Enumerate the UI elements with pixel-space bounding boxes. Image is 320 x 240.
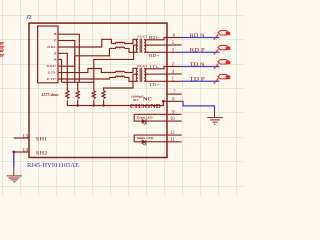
termination bus rail bbox=[62, 81, 94, 83]
resistor R4 75 ohm bbox=[102, 91, 105, 99]
wire CT2 to pin 4 bbox=[144, 73, 181, 75]
inner pin names bbox=[46, 32, 57, 81]
port arrow RD P bbox=[214, 45, 230, 54]
svg-text:NC: NC bbox=[143, 97, 152, 103]
pin 14 SH2 stub bbox=[14, 151, 29, 153]
yellow LED D2 wiring loop bbox=[134, 135, 181, 142]
CT2 tap wire to resistor R4 bbox=[104, 74, 138, 90]
svg-text:RD-: RD- bbox=[149, 35, 160, 40]
earth ground symbol left bbox=[7, 167, 22, 182]
net wire TD P bbox=[182, 80, 220, 82]
junction dot shield bbox=[12, 151, 15, 154]
clipped net-label fragments at left sheet edge bbox=[0, 42, 4, 56]
inner RJ45 pin block box bbox=[38, 26, 58, 83]
transformer T2 secondary winding bbox=[144, 68, 146, 81]
svg-text:SH2: SH2 bbox=[36, 151, 48, 157]
svg-text:12: 12 bbox=[170, 131, 175, 136]
wire choke L1 to transformer T1 primary bbox=[125, 39, 138, 52]
connector J2 outer body box bbox=[29, 23, 167, 157]
common-mode choke L1 winding top bbox=[111, 42, 124, 43]
svg-text:11: 11 bbox=[170, 138, 175, 143]
transformer T2 primary winding bbox=[136, 68, 138, 81]
svg-text:14: 14 bbox=[22, 147, 28, 153]
wire TD- to pin 2 bbox=[144, 67, 181, 69]
wire J2 TX- to choke T2 bbox=[58, 69, 111, 73]
resistor R3 75 ohm bbox=[92, 91, 95, 99]
svg-text:TD-: TD- bbox=[149, 64, 160, 69]
svg-text:2KV: 2KV bbox=[133, 98, 139, 102]
resistor R2 bottom lead bbox=[77, 100, 79, 106]
chassis ground symbol right bbox=[207, 112, 223, 124]
common-mode choke L2 winding bottom bbox=[109, 76, 124, 77]
wire J4 to bus bbox=[58, 59, 62, 82]
wire choke L2 to transformer T2 primary bbox=[125, 68, 138, 81]
wire J1 TX+ to choke T2 bbox=[58, 77, 109, 79]
net wire RD P bbox=[182, 51, 220, 53]
wire RD+ to pin 3 bbox=[144, 51, 181, 53]
svg-text:1CT:1CT: 1CT:1CT bbox=[137, 34, 148, 38]
right-side pin numbers bbox=[170, 34, 176, 143]
pin 8 stub bbox=[167, 100, 182, 102]
net wire CHSGND to chassis ground bbox=[182, 101, 215, 112]
wire TD+ to pin 1 bbox=[144, 80, 181, 82]
svg-text:13: 13 bbox=[22, 133, 28, 139]
bottom termination rail to CHSGND pin bbox=[67, 100, 167, 106]
port arrow TD N bbox=[214, 60, 230, 69]
svg-text:RJ45-HY911105AE: RJ45-HY911105AE bbox=[27, 163, 79, 169]
wire CT1 to pin 5 bbox=[144, 44, 181, 46]
svg-text:J2 TX-: J2 TX- bbox=[47, 71, 56, 75]
port arrow TD P bbox=[214, 74, 230, 83]
svg-text:TD+: TD+ bbox=[149, 82, 160, 87]
wire J8 to bus bbox=[58, 34, 79, 82]
svg-text:10: 10 bbox=[170, 117, 175, 122]
svg-text:J2: J2 bbox=[25, 15, 31, 20]
transformer T1 core bbox=[139, 39, 141, 53]
net wire TD N bbox=[182, 66, 220, 68]
wire J7 to bus bbox=[58, 41, 75, 83]
svg-text:CHSGND: CHSGND bbox=[130, 104, 162, 110]
common-mode choke L1 winding bottom bbox=[109, 47, 124, 48]
junction dots on rails bbox=[66, 81, 68, 83]
svg-text:J4: J4 bbox=[53, 58, 57, 62]
transformer T1 primary winding bbox=[136, 39, 138, 52]
svg-text:Green LED: Green LED bbox=[137, 115, 153, 119]
common-mode choke L2 winding top bbox=[111, 71, 124, 72]
wire RD- to pin 6 bbox=[144, 38, 181, 40]
pin 13 SH1 stub bbox=[14, 137, 29, 139]
svg-text:1CT:1CT: 1CT:1CT bbox=[137, 64, 148, 68]
green LED D1 symbol bbox=[142, 119, 146, 123]
svg-text:TD P: TD P bbox=[190, 78, 206, 83]
svg-text:J6 RX-: J6 RX- bbox=[47, 45, 56, 49]
svg-text:4X75 ohms: 4X75 ohms bbox=[42, 93, 60, 97]
svg-text:RD N: RD N bbox=[190, 34, 206, 39]
svg-text:TD N: TD N bbox=[190, 63, 206, 68]
svg-text:J8: J8 bbox=[53, 32, 57, 36]
resistor R2 75 ohm bbox=[76, 91, 79, 99]
wire shield to ground bbox=[13, 152, 15, 167]
green LED D1 wiring loop bbox=[134, 114, 181, 121]
transformer T2 core bbox=[139, 68, 141, 82]
CT1 tap wire to resistor R3 bbox=[94, 45, 138, 90]
pin 7 stub bbox=[167, 93, 182, 95]
net wire RD N bbox=[182, 37, 220, 39]
resistor R3 bottom lead bbox=[93, 100, 95, 106]
resistor R4 bottom lead bbox=[103, 100, 105, 106]
resistor R1 75 ohm bbox=[66, 91, 69, 99]
yellow LED D2 symbol bbox=[142, 140, 146, 144]
svg-text:J3 RX+: J3 RX+ bbox=[46, 64, 56, 68]
svg-text:RD P: RD P bbox=[190, 49, 206, 54]
wire J6 RX- to choke T1 bbox=[58, 39, 111, 47]
resistor R2 top lead bbox=[77, 82, 79, 90]
svg-text:J7: J7 bbox=[53, 39, 57, 43]
wire J5 to bus bbox=[58, 53, 67, 90]
svg-text:J5: J5 bbox=[53, 51, 57, 55]
port arrow RD N bbox=[214, 31, 230, 40]
svg-text:J1 TX+: J1 TX+ bbox=[47, 77, 57, 81]
svg-text:RD+: RD+ bbox=[149, 53, 160, 58]
transformer T1 secondary winding bbox=[144, 39, 146, 52]
wire J3 RX+ to choke T1 bbox=[58, 48, 109, 66]
svg-text:Yellow LED: Yellow LED bbox=[137, 136, 154, 140]
svg-text:SH1: SH1 bbox=[36, 137, 48, 143]
